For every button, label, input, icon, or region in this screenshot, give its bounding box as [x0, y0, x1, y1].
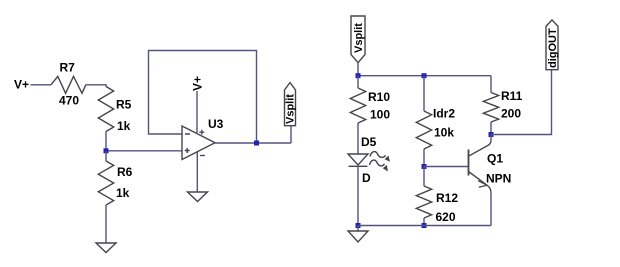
- resistor Idr2: [416, 107, 455, 149]
- svg-text:200: 200: [501, 107, 521, 121]
- node base junction: [422, 164, 427, 169]
- transistor Q1: [469, 135, 512, 226]
- pin label minus input: [185, 133, 190, 135]
- wire rail to Idr2: [423, 76, 425, 111]
- svg-text:R7: R7: [60, 61, 76, 75]
- svg-text:Vsplit: Vsplit: [353, 23, 365, 53]
- node bottom-left junction: [356, 223, 361, 228]
- LED light arrow 2: [370, 160, 385, 166]
- wire Vsplit flag to node: [357, 63, 359, 76]
- svg-text:620: 620: [436, 210, 456, 224]
- net flag Vsplit (left): [285, 83, 297, 126]
- wire rail to R10: [357, 76, 359, 88]
- wire top rail: [358, 75, 491, 77]
- svg-text:D: D: [362, 171, 371, 185]
- svg-text:R11: R11: [501, 89, 523, 103]
- wire to Vsplit flag: [290, 126, 292, 143]
- svg-text:D5: D5: [361, 135, 377, 149]
- wire op-amp output: [215, 142, 291, 144]
- ground (below R6): [96, 243, 116, 253]
- wire V+ to R7: [31, 84, 52, 86]
- wire collector node to digOUT: [491, 70, 552, 135]
- emitter lead: [469, 172, 492, 193]
- svg-text:R6: R6: [117, 165, 133, 179]
- op-amp U3: [182, 117, 224, 160]
- node top-middle junction: [422, 73, 427, 78]
- node label V+ (op-amp supply): [191, 76, 205, 91]
- wire Idr2 to base node: [423, 149, 425, 167]
- wire node to op-amp + input: [106, 150, 182, 152]
- svg-text:470: 470: [59, 94, 79, 108]
- LED light arrow 1: [370, 152, 386, 158]
- svg-text:1k: 1k: [117, 119, 131, 133]
- svg-text:R5: R5: [116, 98, 132, 112]
- node collector junction: [489, 132, 494, 137]
- resistor R11: [483, 89, 522, 122]
- svg-text:R10: R10: [368, 90, 390, 104]
- wire rail to R11: [490, 76, 492, 93]
- collector lead: [490, 135, 492, 141]
- emitter arrow: [478, 181, 487, 188]
- net flag digOUT: [546, 20, 559, 70]
- ground (right circuit): [348, 226, 368, 243]
- svg-text:V+: V+: [191, 76, 205, 91]
- svg-text:Vsplit: Vsplit: [285, 94, 297, 124]
- svg-text:Idr2: Idr2: [433, 107, 455, 121]
- pin label minus supply: [200, 155, 205, 157]
- node bottom-middle junction: [422, 223, 427, 228]
- svg-text:10k: 10k: [434, 126, 454, 140]
- svg-text:U3: U3: [208, 117, 224, 131]
- wire R6 to ground: [105, 205, 107, 243]
- wire V+ supply to op-amp top: [196, 91, 198, 134]
- svg-text:100: 100: [370, 108, 390, 122]
- svg-text:R12: R12: [436, 191, 458, 205]
- ground (op-amp supply): [188, 192, 208, 202]
- svg-text:NPN: NPN: [486, 172, 511, 186]
- svg-text:1k: 1k: [116, 186, 130, 200]
- wire R11 to collector node: [490, 122, 492, 135]
- node label V+: [14, 78, 29, 92]
- wire R12 to bottom rail: [423, 218, 425, 226]
- pin label plus supply: [199, 130, 204, 135]
- wire R10 to LED: [357, 123, 359, 154]
- resistor R6: [98, 151, 132, 205]
- wire R5 to node: [105, 132, 107, 152]
- wire LED to bottom rail: [357, 166, 359, 225]
- net flag Vsplit (right): [351, 16, 365, 63]
- pin label plus input: [185, 148, 190, 153]
- wire base node to Q1 base: [424, 166, 469, 168]
- resistor R12: [416, 167, 458, 225]
- wire bottom rail: [358, 225, 491, 227]
- svg-text:V+: V+: [14, 78, 29, 92]
- svg-text:digOUT: digOUT: [547, 28, 559, 68]
- resistor R7: [51, 61, 86, 108]
- wire feedback loop: [149, 51, 257, 144]
- wire R7 to R5: [86, 85, 106, 87]
- node top-left junction: [356, 73, 361, 78]
- resistor R10: [350, 88, 390, 123]
- LED D5: [348, 135, 390, 185]
- resistor R5: [98, 87, 131, 134]
- node output junction: [254, 141, 259, 146]
- node divider junction: [104, 148, 109, 153]
- svg-text:Q1: Q1: [487, 152, 503, 166]
- wire op-amp bottom to ground: [196, 152, 198, 192]
